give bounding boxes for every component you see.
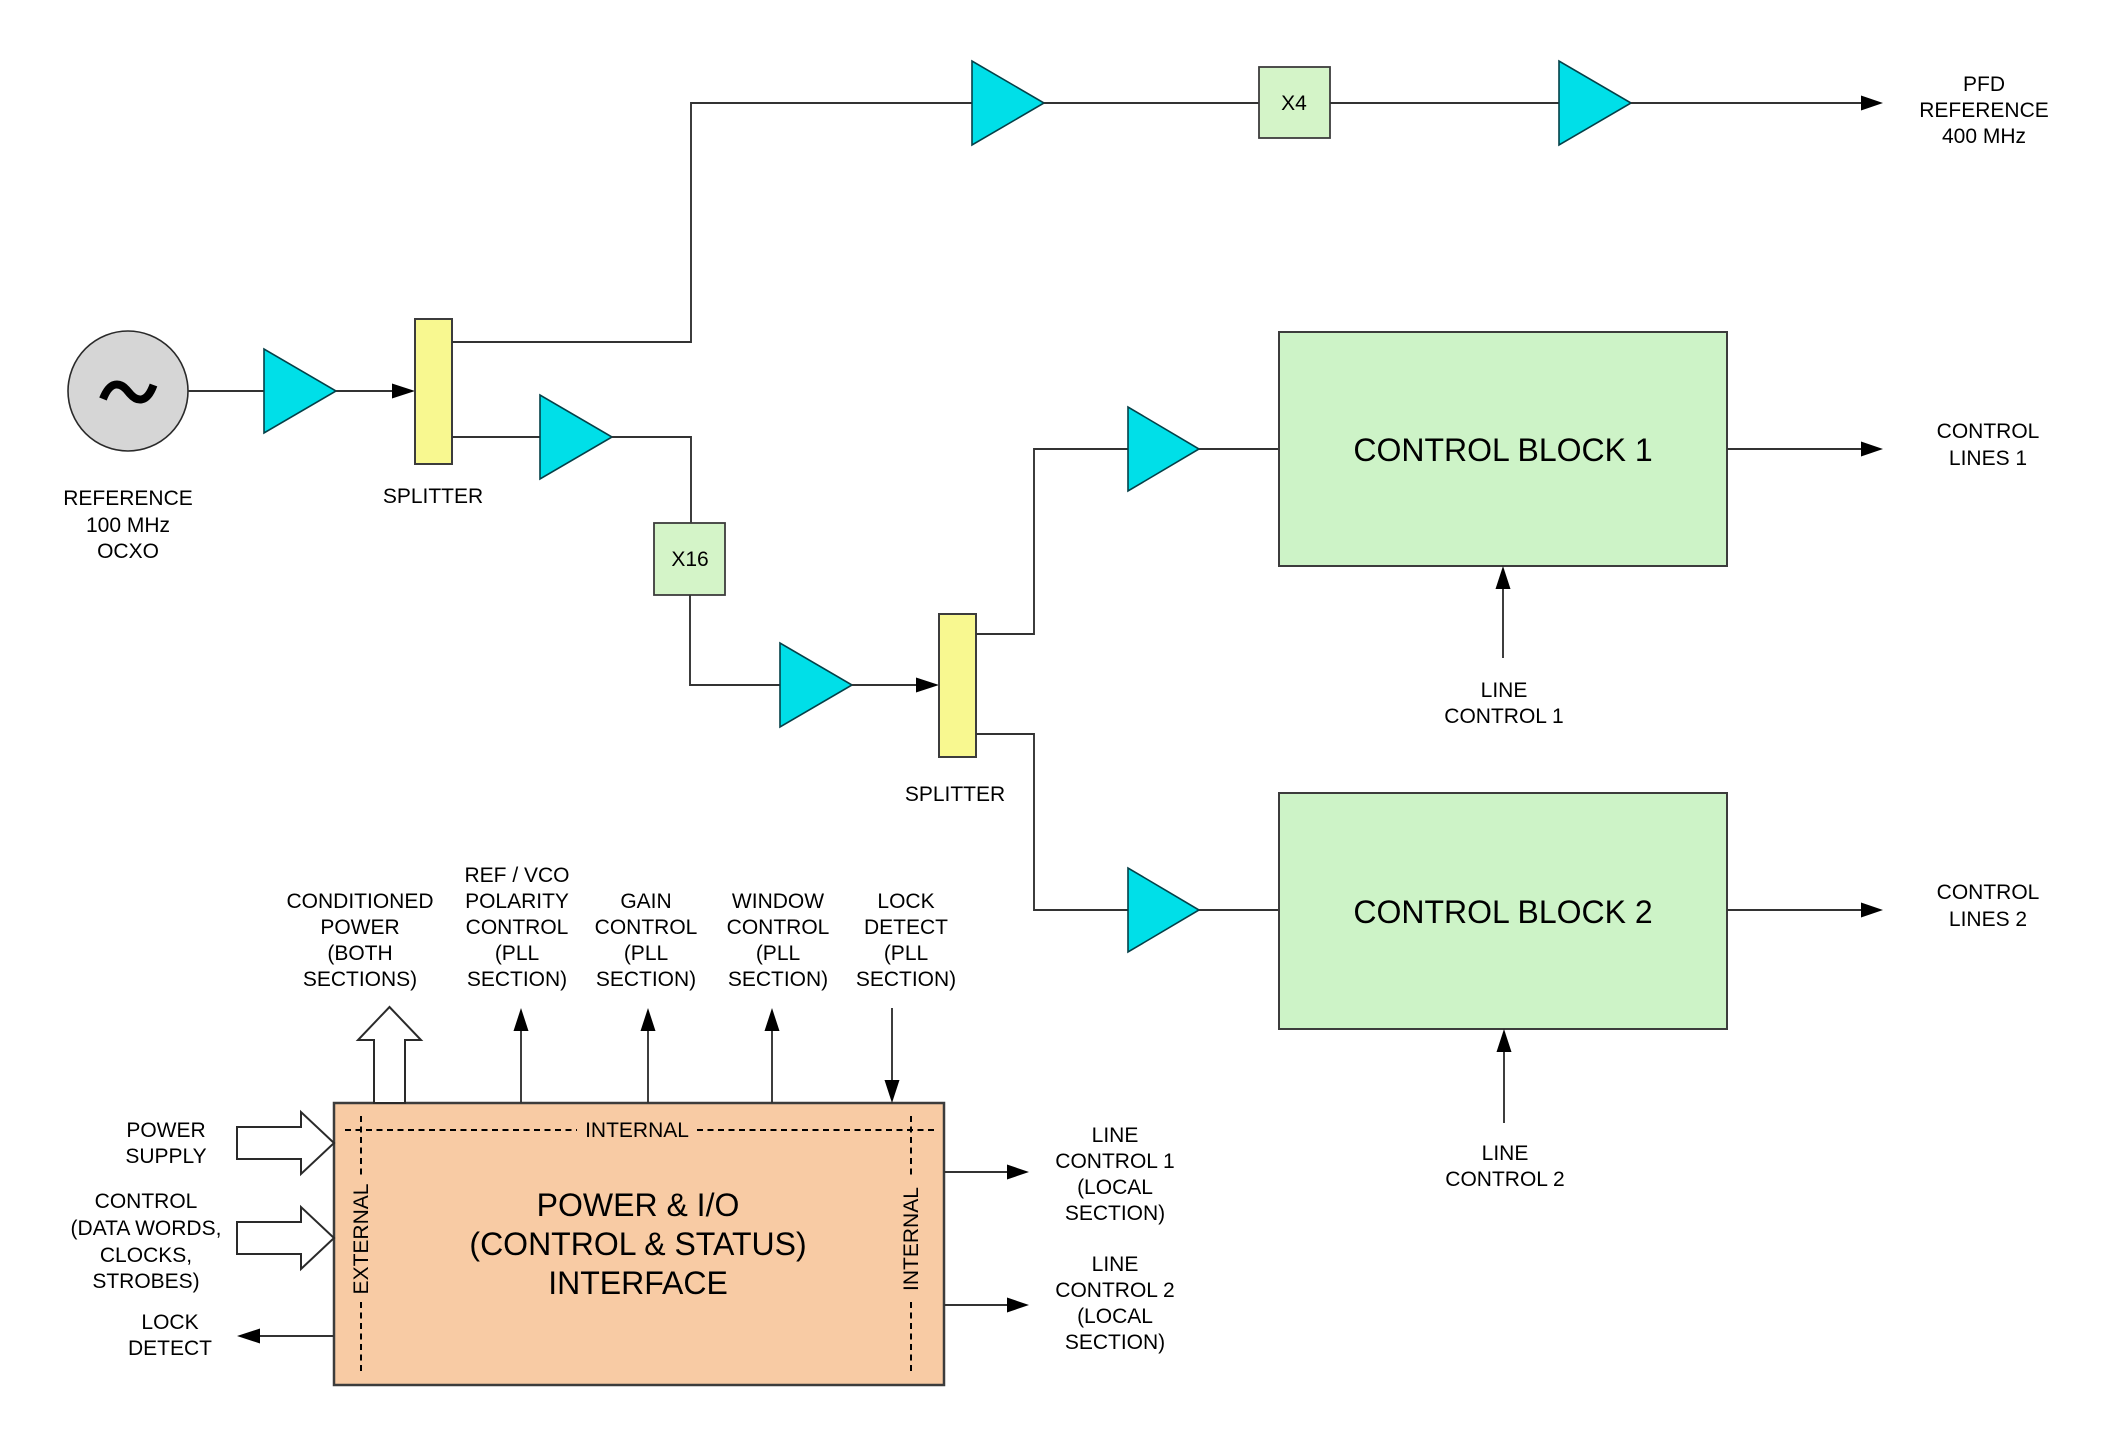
splitter 1 xyxy=(415,319,452,464)
line control 1 local output arrow xyxy=(944,1165,1029,1180)
label LINE CONTROL 2 xyxy=(1445,1142,1564,1191)
wire amp7 to control block 2 xyxy=(1199,909,1279,911)
control block 1 xyxy=(1279,332,1727,566)
svg-text:(LOCAL: (LOCAL xyxy=(1077,1176,1153,1199)
label GAIN CONTROL (PLL SECTION) xyxy=(595,890,698,991)
ref/vco polarity control arrow xyxy=(514,1008,529,1103)
svg-text:CONTROL: CONTROL xyxy=(466,916,569,939)
svg-text:WINDOW: WINDOW xyxy=(732,890,824,913)
svg-text:SUPPLY: SUPPLY xyxy=(125,1145,206,1168)
svg-text:(PLL: (PLL xyxy=(624,942,668,965)
label POWER SUPPLY xyxy=(125,1119,206,1168)
svg-text:INTERFACE: INTERFACE xyxy=(548,1265,728,1301)
svg-text:CONTROL: CONTROL xyxy=(595,916,698,939)
multiplier X16 xyxy=(654,523,725,595)
svg-text:SPLITTER: SPLITTER xyxy=(905,783,1005,806)
label LINE CONTROL 1 xyxy=(1444,679,1563,728)
svg-text:POWER: POWER xyxy=(320,916,399,939)
svg-text:SECTION): SECTION) xyxy=(856,968,956,991)
label REF / VCO POLARITY CONTROL (PLL SECTION) xyxy=(464,864,569,991)
svg-text:SECTION): SECTION) xyxy=(596,968,696,991)
svg-text:CONTROL 1: CONTROL 1 xyxy=(1444,705,1563,728)
wire amp1 to splitter1 with arrowhead xyxy=(336,384,415,399)
wire splitter2 top output to amp6 xyxy=(976,449,1128,634)
amplifier A7 xyxy=(1128,868,1199,952)
line control 2 input arrow xyxy=(1497,1029,1512,1123)
label WINDOW CONTROL (PLL SECTION) xyxy=(727,890,830,991)
svg-text:100 MHz: 100 MHz xyxy=(86,514,170,537)
svg-text:SPLITTER: SPLITTER xyxy=(383,485,483,508)
svg-text:CLOCKS,: CLOCKS, xyxy=(100,1244,192,1267)
label LINE CONTROL 2 (LOCAL SECTION) xyxy=(1055,1253,1174,1354)
window control arrow xyxy=(765,1008,780,1103)
svg-text:CONTROL: CONTROL xyxy=(1937,420,2040,443)
line control 1 input arrow xyxy=(1496,566,1511,658)
lock detect output arrow left xyxy=(237,1329,334,1344)
lock detect status arrow into box xyxy=(885,1008,900,1103)
svg-text:REF / VCO: REF / VCO xyxy=(464,864,569,887)
wire splitter1 bottom output to amp4 xyxy=(452,436,540,438)
svg-text:CONTROL 2: CONTROL 2 xyxy=(1445,1168,1564,1191)
svg-text:GAIN: GAIN xyxy=(620,890,671,913)
svg-text:POLARITY: POLARITY xyxy=(465,890,569,913)
power supply block arrow xyxy=(237,1112,334,1174)
label CONTROL LINES 1 xyxy=(1937,420,2040,470)
wire amp4 to X16 xyxy=(612,437,691,523)
svg-text:LINE: LINE xyxy=(1482,1142,1529,1165)
svg-text:SECTION): SECTION) xyxy=(1065,1331,1165,1354)
output arrow control lines 1 xyxy=(1727,442,1883,457)
svg-text:400 MHz: 400 MHz xyxy=(1942,125,2026,148)
svg-text:X4: X4 xyxy=(1281,92,1307,115)
internal dashed boundary horizontal xyxy=(345,1119,938,1142)
label PFD REFERENCE 400 MHz xyxy=(1919,73,2049,148)
svg-text:(PLL: (PLL xyxy=(495,942,539,965)
svg-text:(BOTH: (BOTH xyxy=(327,942,392,965)
svg-text:SECTION): SECTION) xyxy=(1065,1202,1165,1225)
control data block arrow xyxy=(237,1207,334,1269)
gain control arrow xyxy=(641,1008,656,1103)
svg-text:CONTROL BLOCK 2: CONTROL BLOCK 2 xyxy=(1353,894,1652,930)
svg-text:CONDITIONED: CONDITIONED xyxy=(287,890,434,913)
external dashed boundary vertical left xyxy=(350,1116,373,1374)
svg-text:(CONTROL & STATUS): (CONTROL & STATUS) xyxy=(469,1226,806,1262)
svg-text:OCXO: OCXO xyxy=(97,540,159,563)
wire X16 to amp5 xyxy=(690,595,780,685)
svg-text:INTERNAL: INTERNAL xyxy=(585,1119,689,1142)
svg-text:POWER: POWER xyxy=(126,1119,205,1142)
svg-text:LOCK: LOCK xyxy=(877,890,934,913)
svg-text:(LOCAL: (LOCAL xyxy=(1077,1305,1153,1328)
wire X4 to amp3 xyxy=(1330,102,1559,104)
svg-text:EXTERNAL: EXTERNAL xyxy=(350,1184,373,1295)
amplifier A4 xyxy=(540,395,612,479)
amplifier A3 xyxy=(1559,61,1631,145)
svg-text:LOCK: LOCK xyxy=(141,1311,198,1334)
svg-text:(DATA WORDS,: (DATA WORDS, xyxy=(71,1217,222,1240)
wire amp6 to control block 1 xyxy=(1199,448,1279,450)
internal dashed boundary vertical right xyxy=(900,1116,923,1374)
svg-text:CONTROL: CONTROL xyxy=(1937,881,2040,904)
output arrow control lines 2 xyxy=(1727,903,1883,918)
amplifier A2 xyxy=(972,61,1044,145)
wire splitter2 bottom output to amp7 xyxy=(976,734,1128,910)
svg-text:SECTION): SECTION) xyxy=(467,968,567,991)
svg-text:CONTROL 1: CONTROL 1 xyxy=(1055,1150,1174,1173)
svg-text:CONTROL 2: CONTROL 2 xyxy=(1055,1279,1174,1302)
conditioned power block arrow xyxy=(358,1007,421,1103)
splitter 2 xyxy=(939,614,976,757)
wire amp2 to X4 xyxy=(1044,102,1259,104)
amplifier A6 xyxy=(1128,407,1199,491)
svg-text:REFERENCE: REFERENCE xyxy=(63,487,193,510)
svg-text:SECTIONS): SECTIONS) xyxy=(303,968,417,991)
label REFERENCE 100 MHz OCXO xyxy=(63,487,193,563)
svg-text:LINE: LINE xyxy=(1092,1253,1139,1276)
wire source to amp1 xyxy=(188,390,264,392)
svg-text:LINE: LINE xyxy=(1092,1124,1139,1147)
control block 2 xyxy=(1279,793,1727,1029)
svg-text:POWER & I/O: POWER & I/O xyxy=(537,1187,740,1223)
svg-text:STROBES): STROBES) xyxy=(92,1270,199,1293)
svg-text:SECTION): SECTION) xyxy=(728,968,828,991)
svg-text:CONTROL BLOCK 1: CONTROL BLOCK 1 xyxy=(1353,432,1652,468)
svg-text:(PLL: (PLL xyxy=(756,942,800,965)
multiplier X4 xyxy=(1259,67,1330,138)
line control 2 local output arrow xyxy=(944,1298,1029,1313)
label LOCK DETECT (PLL SECTION) xyxy=(856,890,956,991)
svg-text:LINES 2: LINES 2 xyxy=(1949,908,2027,931)
svg-text:INTERNAL: INTERNAL xyxy=(900,1187,923,1291)
label LINE CONTROL 1 (LOCAL SECTION) xyxy=(1055,1124,1174,1225)
label CONDITIONED POWER (BOTH SECTIONS) xyxy=(287,890,434,991)
svg-text:CONTROL: CONTROL xyxy=(727,916,830,939)
power and I/O interface box xyxy=(334,1103,944,1385)
reference source OCXO circle xyxy=(68,331,188,451)
label LOCK DETECT left xyxy=(128,1311,212,1360)
wire amp3 to PFD output arrow xyxy=(1631,96,1883,111)
svg-text:PFD: PFD xyxy=(1963,73,2005,96)
label CONTROL LINES 2 xyxy=(1937,881,2040,931)
svg-text:LINES 1: LINES 1 xyxy=(1949,447,2027,470)
wire splitter1 top output to top rail xyxy=(452,103,972,342)
svg-text:DETECT: DETECT xyxy=(864,916,948,939)
amplifier A1 xyxy=(264,349,336,433)
label CONTROL (DATA WORDS, CLOCKS, STROBES) xyxy=(71,1190,222,1293)
svg-text:(PLL: (PLL xyxy=(884,942,928,965)
svg-text:LINE: LINE xyxy=(1481,679,1528,702)
svg-text:DETECT: DETECT xyxy=(128,1337,212,1360)
amplifier A5 xyxy=(780,643,852,727)
wire amp5 to splitter2 with arrowhead xyxy=(852,678,939,693)
svg-text:REFERENCE: REFERENCE xyxy=(1919,99,2049,122)
svg-text:CONTROL: CONTROL xyxy=(95,1190,198,1213)
svg-text:X16: X16 xyxy=(671,548,708,571)
